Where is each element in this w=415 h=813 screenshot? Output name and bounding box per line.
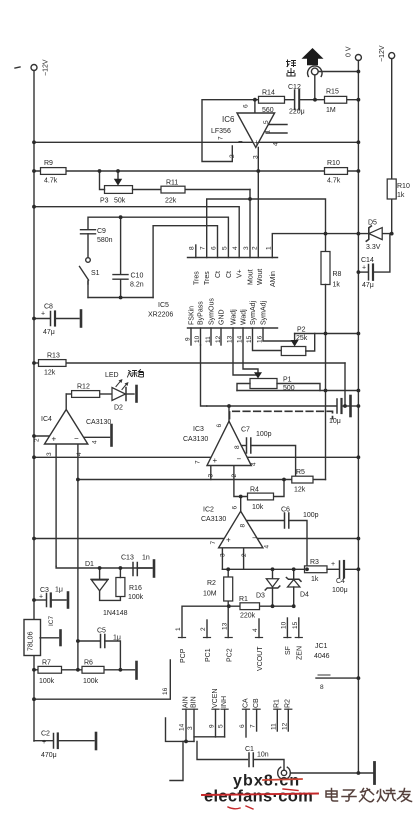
watermark chinese text	[326, 789, 412, 802]
svg-text:P1: P1	[283, 377, 292, 384]
wire left -12V bus	[33, 71, 35, 742]
wire horizontal y171	[34, 170, 358, 172]
svg-text:8: 8	[234, 445, 241, 449]
svg-text:+: +	[52, 435, 57, 444]
svg-text:R10: R10	[397, 183, 410, 190]
terminal -12V left	[15, 65, 37, 71]
resistor R5	[292, 469, 313, 494]
svg-text:4.7k: 4.7k	[44, 178, 58, 185]
wire -12V right bus lower	[391, 199, 393, 234]
regulator IC7 78L06	[24, 616, 61, 656]
wire 0V right bus	[357, 61, 359, 774]
svg-text:3: 3	[46, 452, 53, 456]
svg-text:5: 5	[222, 246, 229, 250]
svg-text:2: 2	[231, 474, 238, 478]
svg-text:Wadj: Wadj	[231, 309, 238, 325]
svg-text:4: 4	[264, 545, 271, 549]
svg-text:6: 6	[239, 724, 246, 728]
svg-text:R10: R10	[327, 160, 340, 167]
resistor R12	[66, 384, 112, 398]
svg-text:C8: C8	[44, 304, 53, 311]
svg-text:C14: C14	[361, 257, 374, 264]
svg-text:8: 8	[240, 524, 247, 528]
svg-text:14: 14	[179, 723, 186, 731]
svg-text:7: 7	[200, 246, 207, 250]
svg-text:+: +	[362, 265, 366, 272]
svg-text:−12V: −12V	[43, 59, 50, 76]
svg-text:Tres: Tres	[193, 271, 200, 285]
svg-text:D4: D4	[300, 592, 309, 599]
svg-text:R9: R9	[44, 160, 53, 167]
svg-text:XR2206: XR2206	[148, 312, 173, 319]
svg-text:R16: R16	[129, 585, 142, 592]
svg-text:+: +	[39, 594, 43, 601]
svg-text:R4: R4	[250, 487, 259, 494]
svg-text:IC6: IC6	[222, 115, 235, 124]
svg-text:100μ: 100μ	[332, 587, 348, 594]
svg-text:GND: GND	[219, 309, 226, 325]
IC1 4046 bottom pin labels	[182, 689, 291, 708]
svg-text:S1: S1	[91, 270, 100, 277]
svg-text:1k: 1k	[397, 192, 405, 199]
svg-text:Ct: Ct	[215, 271, 222, 278]
svg-text:CA3130: CA3130	[201, 516, 226, 523]
resistor R3	[305, 559, 328, 583]
svg-text:R7: R7	[42, 660, 51, 667]
svg-text:2: 2	[34, 438, 41, 442]
svg-text:D5: D5	[368, 220, 377, 227]
potentiometer P1	[237, 372, 358, 392]
svg-text:1N4148: 1N4148	[103, 610, 128, 617]
svg-text:R15: R15	[326, 89, 339, 96]
svg-text:1: 1	[265, 130, 272, 134]
svg-text:3: 3	[243, 246, 250, 250]
dashed shield line	[230, 411, 333, 418]
wire y199 pin7 to R8	[207, 199, 326, 258]
svg-text:580n: 580n	[97, 237, 113, 244]
op-amp IC2 CA3130	[201, 497, 271, 570]
svg-text:4: 4	[251, 462, 258, 466]
svg-text:3: 3	[220, 553, 227, 557]
svg-text:R11: R11	[166, 180, 178, 187]
svg-text:50k: 50k	[114, 198, 126, 205]
svg-text:8: 8	[320, 684, 324, 691]
svg-text:4046: 4046	[314, 653, 330, 660]
resistor R9	[41, 160, 67, 185]
svg-text:47μ: 47μ	[43, 329, 55, 336]
resistor R10 1k vertical	[387, 179, 410, 199]
wire -12V right bus upper	[391, 59, 393, 179]
svg-text:78L06: 78L06	[28, 631, 35, 651]
svg-text:+: +	[213, 456, 218, 465]
svg-text:FSKin: FSKin	[189, 306, 196, 325]
svg-text:C6: C6	[281, 507, 290, 514]
svg-text:4: 4	[76, 452, 83, 456]
capacitor C1 10n	[245, 746, 284, 770]
svg-text:IC7: IC7	[48, 616, 55, 627]
svg-text:10n: 10n	[257, 752, 269, 759]
svg-text:6: 6	[232, 506, 239, 510]
capacitor C4	[327, 561, 358, 594]
IC1 4046 top pin labels	[180, 646, 304, 671]
watermark red strike over cn	[263, 779, 302, 780]
svg-text:7: 7	[218, 136, 225, 140]
svg-text:Tres: Tres	[204, 271, 211, 285]
XR2206 bottom stubs 9-12	[191, 328, 221, 345]
resistor R6	[82, 660, 137, 686]
svg-text:1k: 1k	[333, 282, 341, 289]
svg-text:ZEN: ZEN	[297, 646, 304, 660]
svg-text:1k: 1k	[311, 576, 319, 583]
svg-text:500: 500	[283, 385, 295, 392]
svg-text:10M: 10M	[203, 591, 217, 598]
capacitor C3	[34, 587, 68, 608]
svg-text:R12: R12	[77, 384, 90, 391]
svg-text:6: 6	[211, 246, 218, 250]
svg-text:CA: CA	[242, 698, 249, 708]
svg-text:9: 9	[209, 724, 216, 728]
svg-text:AMin: AMin	[270, 271, 277, 287]
LED D2 green	[105, 370, 144, 412]
capacitor C14	[358, 234, 390, 289]
capacitor C6	[247, 507, 319, 570]
terminal -12V right	[389, 53, 395, 59]
resistor R15	[325, 89, 359, 115]
svg-text:IC4: IC4	[41, 416, 52, 423]
XR2206 bottom pin row boundary	[188, 327, 278, 329]
svg-text:47μ: 47μ	[362, 282, 374, 289]
XR2206 top pin numbers	[189, 246, 273, 250]
svg-text:+: +	[254, 138, 259, 147]
svg-text:IC5: IC5	[158, 302, 169, 309]
resistor R13	[34, 353, 345, 407]
svg-text:C10: C10	[131, 273, 144, 280]
wire R3 node line y569	[222, 568, 304, 570]
wire y297 C9 bottom	[87, 281, 89, 298]
output arrow symbol	[302, 48, 324, 65]
XR2206 pin 8 stub	[195, 245, 197, 258]
wire y479	[78, 479, 326, 481]
svg-text:5: 5	[218, 724, 225, 728]
svg-text:2: 2	[229, 154, 236, 158]
wire horizontal y142	[34, 141, 358, 143]
IC1 4046 bottom stubs	[186, 709, 288, 741]
svg-text:BIN: BIN	[190, 696, 197, 708]
svg-text:PC1: PC1	[205, 648, 212, 662]
svg-text:100p: 100p	[303, 512, 319, 519]
resistor R7	[34, 660, 82, 686]
wire y225 to pin6	[153, 226, 217, 298]
svg-text:LF356: LF356	[211, 128, 231, 135]
svg-text:R1: R1	[239, 596, 248, 603]
svg-text:Ct: Ct	[226, 271, 233, 278]
resistor R16 vertical	[116, 568, 144, 601]
svg-text:R14: R14	[262, 90, 275, 97]
svg-text:8: 8	[189, 246, 196, 250]
svg-text:SF: SF	[285, 646, 292, 655]
svg-text:CB: CB	[253, 698, 260, 708]
svg-text:C12: C12	[288, 84, 301, 91]
IC1 4046 top pin ticks	[179, 637, 303, 639]
wire pin15 to P2	[253, 328, 282, 351]
wire y457	[34, 456, 358, 458]
svg-text:4: 4	[92, 440, 99, 444]
svg-text:100p: 100p	[256, 431, 272, 438]
potentiometer P3	[100, 171, 133, 205]
XR2206 pin 2 wire from IC6	[257, 147, 259, 257]
svg-text:SymAdj: SymAdj	[261, 300, 268, 325]
resistor R2 10M vertical	[203, 569, 233, 637]
jack terminal bottom	[278, 763, 375, 784]
svg-text:1n: 1n	[142, 555, 150, 562]
svg-text:12k: 12k	[294, 487, 306, 494]
potentiometer P2	[281, 327, 358, 356]
svg-text:2: 2	[200, 627, 207, 631]
svg-text:4: 4	[252, 628, 259, 632]
svg-text:C1: C1	[245, 746, 254, 753]
wire y217 C9 top to pin5	[88, 217, 228, 257]
svg-text:R13: R13	[47, 353, 60, 360]
svg-text:100k: 100k	[128, 594, 144, 601]
svg-text:220k: 220k	[240, 613, 256, 620]
svg-text:PCP: PCP	[180, 648, 187, 663]
wire pin10 bypass to 10u cap	[201, 345, 207, 406]
IC1 4046 bottom pin numbers	[179, 722, 289, 731]
svg-text:2: 2	[251, 246, 258, 250]
svg-text:220μ: 220μ	[289, 109, 305, 116]
svg-text:C2: C2	[41, 731, 50, 738]
capacitor C13	[121, 555, 154, 577]
wire inh tie	[194, 736, 225, 738]
svg-text:R1: R1	[274, 699, 281, 708]
svg-text:C5: C5	[97, 628, 106, 635]
svg-text:470μ: 470μ	[41, 752, 57, 759]
capacitor C7	[241, 427, 296, 478]
capacitor 10u bypass	[329, 396, 358, 425]
svg-text:P3: P3	[100, 198, 109, 205]
svg-text:1: 1	[265, 246, 272, 250]
zener diode D5 3.3V	[366, 220, 382, 252]
svg-text:560: 560	[262, 107, 274, 114]
svg-text:1M: 1M	[326, 107, 336, 114]
svg-text:R2: R2	[207, 580, 216, 587]
svg-text:P2: P2	[297, 327, 306, 334]
svg-text:C9: C9	[97, 228, 106, 235]
IC1 pin 8 wire	[316, 675, 358, 691]
svg-text:0 V: 0 V	[346, 46, 353, 57]
svg-text:LED: LED	[105, 372, 119, 379]
wire 16 line y699	[34, 660, 170, 699]
svg-text:−: −	[252, 534, 257, 543]
diode D1 1N4148	[85, 561, 128, 617]
svg-text:VCEN: VCEN	[212, 689, 219, 708]
svg-text:C7: C7	[241, 427, 250, 434]
capacitor C8	[34, 304, 81, 337]
svg-text:IC2: IC2	[203, 507, 214, 514]
svg-text:10: 10	[281, 621, 288, 629]
svg-text:D2: D2	[114, 405, 123, 412]
svg-text:SymOus: SymOus	[209, 298, 216, 325]
svg-text:7: 7	[195, 460, 202, 464]
svg-text:15: 15	[292, 621, 299, 629]
svg-text:Wout: Wout	[257, 269, 264, 285]
XR2206 pin 1 wire to D5 line	[272, 234, 391, 258]
svg-text:SymAdj: SymAdj	[250, 300, 257, 325]
svg-text:AIN: AIN	[182, 696, 189, 708]
svg-text:6: 6	[243, 104, 250, 108]
svg-text:25k: 25k	[296, 335, 308, 342]
svg-text:3: 3	[208, 474, 215, 478]
svg-text:D1: D1	[85, 561, 94, 568]
IC1 4046 bottom pin ticks	[183, 708, 292, 710]
op-amp IC4 CA3130	[34, 394, 112, 670]
svg-text:4.7k: 4.7k	[327, 178, 341, 185]
svg-text:13: 13	[222, 622, 229, 630]
XR2206 bottom pin numbers	[185, 335, 264, 343]
svg-text:IC3: IC3	[193, 426, 204, 433]
XR2206 top pin labels	[193, 269, 276, 287]
svg-text:3: 3	[187, 726, 194, 730]
svg-text:−: −	[237, 455, 242, 464]
svg-text:R2: R2	[285, 699, 292, 708]
output jack	[308, 66, 359, 100]
resistor R14	[255, 90, 294, 115]
svg-text:R5: R5	[296, 469, 305, 476]
IC1 4046 top stubs	[207, 618, 299, 638]
wire pin13 to P1 wiper	[233, 328, 258, 375]
svg-text:100k: 100k	[83, 678, 99, 685]
svg-text:5: 5	[263, 120, 270, 124]
op-amp IC3 CA3130	[183, 406, 258, 497]
svg-text:11: 11	[270, 723, 277, 730]
svg-text:7: 7	[250, 724, 257, 728]
capacitor C9	[81, 228, 113, 258]
svg-text:−12V: −12V	[379, 45, 386, 62]
svg-text:10μ: 10μ	[329, 418, 341, 425]
svg-text:10k: 10k	[252, 504, 264, 511]
wire y206 to pin4	[34, 207, 239, 258]
capacitor C12	[288, 84, 326, 116]
svg-text:Wadj: Wadj	[241, 309, 248, 325]
svg-text:+: +	[42, 739, 46, 746]
wire pin14 to P1 wiper	[243, 328, 258, 375]
wire C10 bottom	[120, 280, 122, 298]
svg-text:4: 4	[273, 142, 280, 146]
resistor R4	[248, 480, 285, 512]
capacitor C5	[78, 628, 121, 670]
svg-text:7: 7	[210, 541, 217, 545]
capacitor C10	[113, 273, 144, 289]
svg-text:1μ: 1μ	[55, 587, 63, 594]
svg-text:6: 6	[216, 424, 223, 428]
svg-text:R6: R6	[84, 660, 93, 667]
svg-text:VCOUT: VCOUT	[257, 646, 264, 671]
svg-text:R8: R8	[333, 271, 342, 278]
XR2206 bottom pin labels	[189, 298, 268, 325]
svg-text:ByPass: ByPass	[198, 301, 205, 325]
diode D4	[286, 569, 309, 606]
svg-text:C13: C13	[121, 555, 134, 562]
svg-text:CA3130: CA3130	[183, 436, 208, 443]
svg-text:1μ: 1μ	[113, 635, 121, 642]
svg-text:INH: INH	[221, 696, 228, 708]
svg-text:8.2n: 8.2n	[130, 282, 144, 289]
svg-text:12k: 12k	[44, 370, 56, 377]
svg-text:Mout: Mout	[248, 269, 255, 285]
svg-text:JC1: JC1	[315, 643, 328, 650]
svg-text:+: +	[226, 536, 231, 545]
svg-text:+: +	[331, 561, 335, 568]
svg-text:−: −	[74, 434, 79, 443]
switch S1	[80, 258, 91, 284]
terminal 0V	[355, 55, 361, 61]
resistor R1 220k	[182, 596, 294, 638]
svg-text:R3: R3	[310, 559, 319, 566]
resistor R10 4.7k	[325, 160, 348, 185]
wire y538	[34, 538, 358, 540]
svg-text:2: 2	[241, 553, 248, 557]
svg-text:22k: 22k	[165, 198, 177, 205]
svg-text:−: −	[238, 137, 243, 146]
svg-text:16: 16	[162, 687, 169, 695]
svg-text:+: +	[41, 311, 45, 318]
svg-text:3.3V: 3.3V	[366, 244, 381, 251]
diode D3	[256, 569, 280, 606]
resistor R8 vertical	[321, 252, 342, 480]
svg-text:CA3130: CA3130	[86, 419, 111, 426]
XR2206 top pin row boundary	[188, 257, 278, 259]
wire pin16 to P2 wiper line	[263, 328, 295, 341]
op-amp IC6 LF356	[202, 100, 287, 162]
IC1 4046 top pin numbers	[175, 621, 299, 632]
svg-text:12: 12	[281, 722, 288, 730]
wire 10u bypass line y406	[207, 405, 336, 407]
svg-text:PC2: PC2	[227, 648, 234, 662]
svg-text:D3: D3	[256, 593, 265, 600]
wire D1-C13 line y568	[56, 566, 152, 568]
svg-text:V+: V+	[237, 269, 244, 278]
svg-text:4: 4	[232, 246, 239, 250]
capacitor C2 470u	[34, 731, 96, 760]
svg-text:C4: C4	[336, 578, 345, 585]
wire C9-S1 branch bottom	[120, 217, 122, 274]
resistor R11	[133, 180, 251, 258]
wire AIN-BIN join	[166, 718, 248, 781]
svg-text:100k: 100k	[39, 678, 55, 685]
svg-text:1: 1	[175, 627, 182, 631]
